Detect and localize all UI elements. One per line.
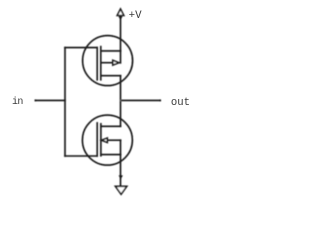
ground arrowhead [119, 175, 123, 179]
Q2 channel bar [100, 124, 102, 156]
Q2 gate plate [96, 123, 98, 156]
power rail arrowhead [118, 16, 122, 20]
Q1 channel bar [100, 47, 102, 80]
svg-text:out: out [171, 97, 190, 109]
transistor Q1 (PMOS) circle [83, 36, 133, 86]
wire: +V rail down to PMOS drain stub and bulk tap [120, 16, 122, 63]
wire: Q2 bulk/source down to ground [120, 140, 122, 186]
Q1 bulk stub [101, 62, 113, 64]
svg-text:+V: +V [129, 10, 142, 22]
wire: input bus to Q2 gate [65, 155, 97, 157]
Q1 bulk arrow (p-channel, pointing right) [113, 60, 119, 65]
wire: in lead [35, 99, 65, 101]
node: in terminal dot [35, 99, 37, 101]
node: out terminal dot [159, 99, 161, 101]
node: out junction on rail [120, 100, 122, 102]
power rail +V open triangle [117, 9, 124, 16]
ground open triangle [115, 186, 126, 194]
wire: out lead [121, 99, 161, 101]
wire: Q1 source down through out node to Q2 drain [120, 76, 122, 127]
Q2 source stub (bottom) [101, 154, 121, 156]
Q1 drain stub (top) [101, 50, 121, 52]
left input bus [64, 48, 66, 156]
Q2 bulk stub [108, 139, 121, 141]
wire: input bus to Q1 gate [65, 47, 97, 49]
Q2 drain stub (top) [101, 125, 121, 127]
Q1 gate plate [96, 48, 98, 80]
Q1 source stub (bottom) [101, 75, 121, 77]
svg-text:in: in [12, 96, 23, 108]
transistor Q2 (NMOS) circle [82, 115, 132, 165]
Q2 bulk arrow (n-channel, pointing left) [102, 138, 108, 142]
